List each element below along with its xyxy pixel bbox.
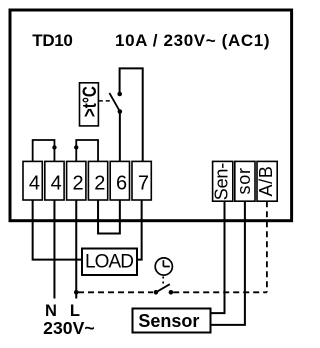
Sensor box	[133, 309, 211, 333]
external jumper terminals 2-6	[98, 200, 120, 234]
jumper bridge terminals 4-4	[33, 140, 55, 162]
thermostat linkage (dashed)	[99, 100, 112, 102]
terminal 7	[132, 161, 151, 200]
terminal 4 (second)	[45, 161, 64, 200]
timer switch lever	[156, 284, 170, 292]
wire: relay bottom contact to terminal 6	[119, 112, 121, 163]
wire terminal 4 to LOAD left	[33, 200, 82, 260]
terminal 6	[110, 161, 129, 200]
wire terminal 7 to LOAD right	[137, 200, 142, 260]
svg-text:2: 2	[72, 173, 83, 195]
svg-text:4: 4	[29, 173, 40, 195]
junction dot on bridge 4-4	[52, 145, 56, 149]
terminal 4 (first)	[23, 161, 42, 200]
timer switch contact right	[169, 290, 174, 295]
relay lever	[109, 93, 120, 112]
wire Sen- to Sensor	[211, 201, 225, 313]
svg-text:>t°C: >t°C	[79, 86, 101, 117]
svg-text:4: 4	[51, 173, 62, 195]
clock linkage dotted	[162, 277, 164, 285]
terminal sor	[234, 161, 255, 201]
LOAD box	[82, 249, 137, 276]
wire terminal 4 to N	[53, 200, 55, 299]
relay contact upper	[117, 92, 122, 97]
svg-text:LOAD: LOAD	[85, 251, 134, 272]
svg-text:6: 6	[116, 173, 127, 195]
svg-text:Sensor: Sensor	[138, 311, 199, 331]
svg-text:A/B: A/B	[256, 166, 276, 197]
wire: relay top loop to terminal 7	[120, 68, 143, 162]
svg-text:2: 2	[94, 173, 105, 195]
jumper bridge terminals 2-2	[76, 140, 98, 162]
mains dashed wire from L	[78, 291, 153, 293]
dashed wire A/B down	[266, 201, 268, 292]
svg-text:sor: sor	[234, 168, 254, 195]
svg-text:10A / 230V~ (AC1): 10A / 230V~ (AC1)	[115, 31, 270, 50]
terminal Sen-	[212, 161, 233, 201]
thermostat box >t°C	[80, 83, 99, 126]
terminal A/B	[256, 161, 277, 201]
wire terminal 2 to L	[75, 200, 77, 299]
svg-text:7: 7	[138, 173, 149, 195]
device outline TD10	[10, 10, 292, 221]
svg-text:Sen-: Sen-	[212, 163, 232, 201]
junction dot on L wire	[74, 290, 79, 295]
svg-text:230V~: 230V~	[43, 318, 95, 338]
timer switch contact left	[154, 290, 159, 295]
terminal 2 (second)	[88, 161, 107, 200]
mains dashed wire to A/B	[173, 291, 267, 293]
svg-text:TD10: TD10	[32, 31, 73, 50]
terminal 2 (first)	[67, 161, 86, 200]
clock symbol	[155, 258, 172, 275]
junction dot on bridge 2-2	[74, 145, 78, 149]
relay contact lower	[118, 109, 123, 114]
wire sor to Sensor	[211, 201, 245, 325]
